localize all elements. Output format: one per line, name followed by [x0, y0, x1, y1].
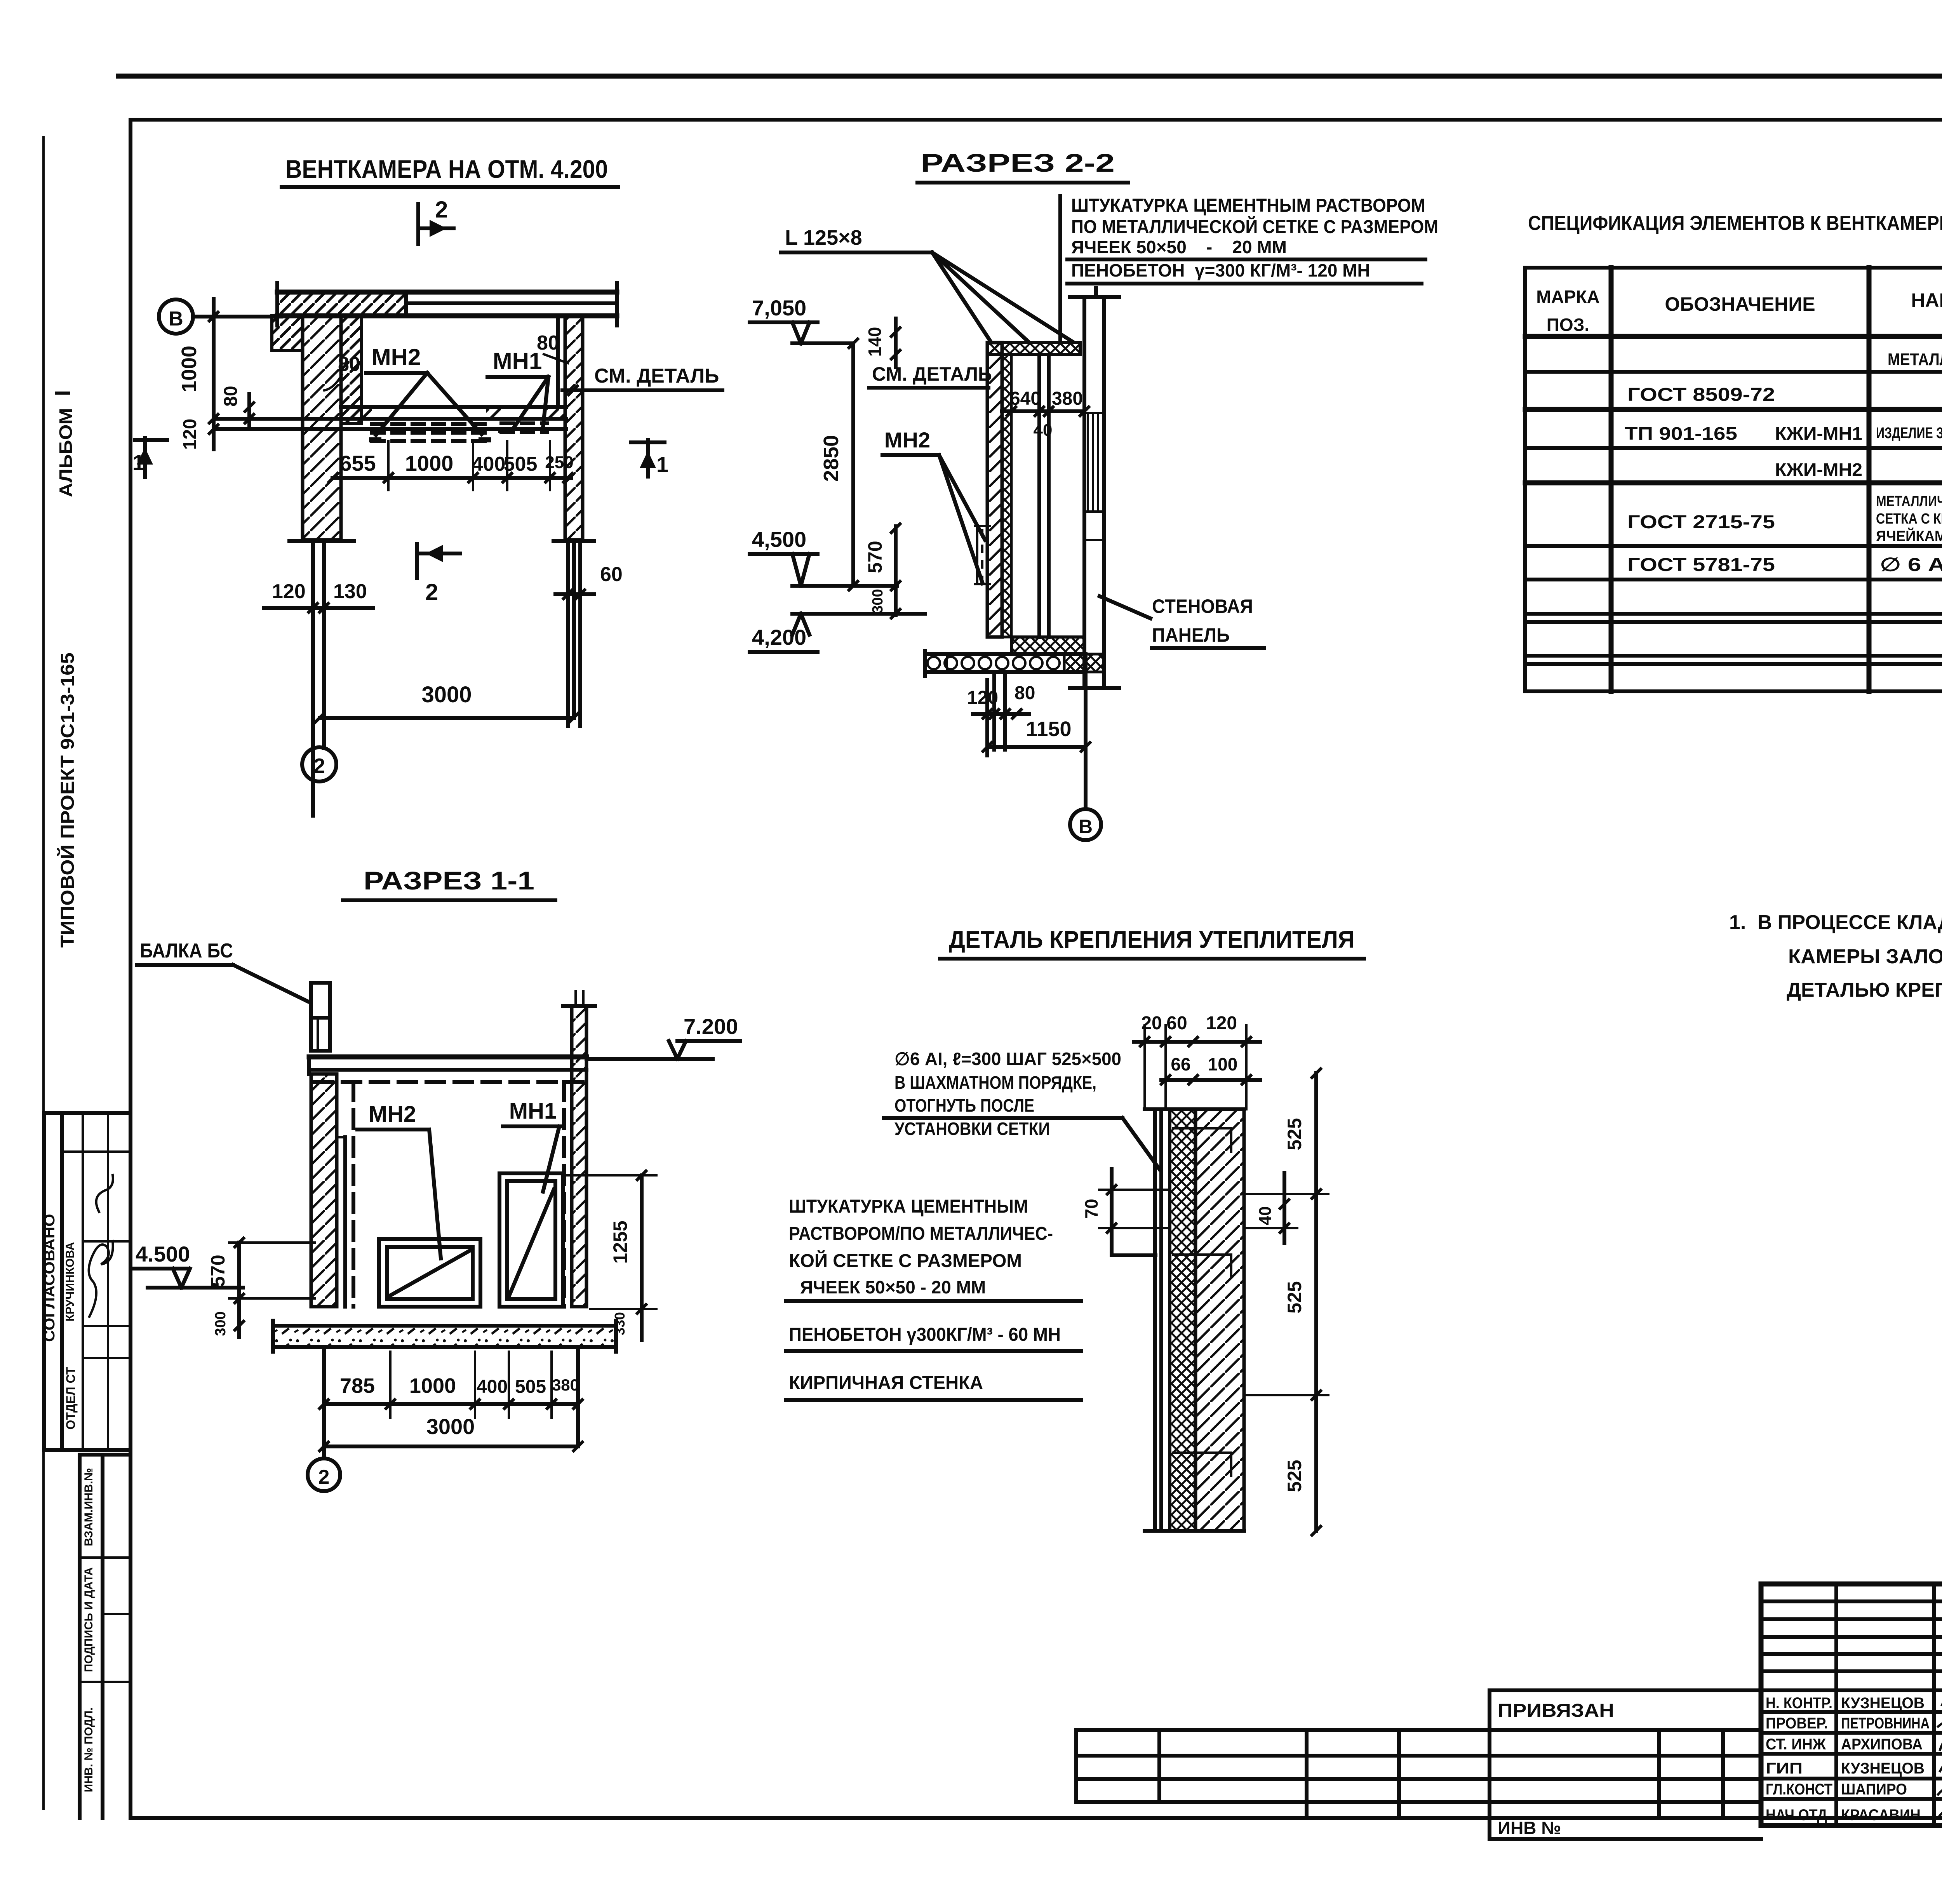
section2 inner partition lines [1039, 355, 1049, 637]
section2 below-floor dims 120 80 [967, 672, 1035, 750]
svg-text:СМ. ДЕТАЛЬ: СМ. ДЕТАЛЬ [594, 365, 719, 387]
section2 MH2 embedded element [975, 526, 990, 584]
plan axis circle B [159, 299, 281, 334]
section2 dim 1150 [982, 680, 1091, 755]
plan left dim 120 [180, 419, 219, 450]
svg-text:МН1: МН1 [509, 1098, 557, 1124]
elevation 4.500 [750, 527, 897, 586]
section1 dim 330 [612, 1309, 642, 1340]
section1 right wall upper stub [563, 991, 595, 1070]
plan top-left corner pier [272, 316, 303, 351]
section2 wall brick strip [987, 343, 1011, 637]
detail note Кирпичная стенка [786, 1373, 1081, 1400]
detail wall layers [1145, 1109, 1244, 1531]
svg-text:1000: 1000 [177, 346, 201, 392]
svg-text:ГОСТ 2715-75: ГОСТ 2715-75 [1627, 512, 1775, 533]
svg-text:ЯЧЕЕК 50×50 - 20 ММ: ЯЧЕЕК 50×50 - 20 ММ [1071, 237, 1287, 257]
svg-text:505: 505 [504, 453, 538, 475]
spec table grid [1525, 268, 1942, 691]
svg-text:ГЛ.КОНСТ: ГЛ.КОНСТ [1766, 1781, 1832, 1798]
section1 label МН1 [503, 1098, 564, 1192]
svg-text:ШАПИРО: ШАПИРО [1841, 1781, 1907, 1798]
svg-text:70: 70 [1081, 1199, 1102, 1218]
left sheet edge line [42, 136, 45, 1810]
svg-text:330: 330 [612, 1312, 628, 1335]
plan left wall [289, 316, 362, 541]
section2 dim 640 380 40 [1002, 388, 1090, 440]
svg-text:120: 120 [1206, 1013, 1237, 1034]
svg-text:7.200: 7.200 [684, 1014, 738, 1039]
plan dim 60 right [555, 563, 623, 600]
plan interior wall band with openings [215, 407, 566, 429]
section2 label Стеновая панель [1100, 595, 1264, 648]
plan opening MH2 dashed grille [369, 424, 491, 442]
svg-text:СЕТКА С КВАДРАТНЫМИ: СЕТКА С КВАДРАТНЫМИ [1876, 511, 1942, 527]
svg-text:МН1: МН1 [493, 348, 542, 374]
section1 floor band [273, 1321, 616, 1352]
spec table header texts [1536, 282, 1942, 335]
svg-text:КУЗНЕЦОВ: КУЗНЕЦОВ [1841, 1695, 1925, 1712]
plan label 80 left [324, 353, 360, 390]
svg-text:100: 100 [1208, 1054, 1238, 1074]
detail top dims 20 60 120 [1134, 1013, 1260, 1109]
svg-text:40: 40 [1256, 1206, 1275, 1225]
svg-text:1: 1 [656, 452, 668, 477]
note Штукатурка upper [1060, 195, 1438, 343]
svg-text:60: 60 [600, 563, 623, 586]
plan section mark 2 top [418, 197, 454, 244]
svg-text:80: 80 [537, 332, 559, 354]
section1 roof slab [309, 1057, 586, 1082]
svg-text:525: 525 [1284, 1118, 1305, 1150]
svg-text:МН2: МН2 [884, 428, 930, 452]
section1 window MH2 [379, 1239, 480, 1307]
detail dim 40 [1247, 1173, 1297, 1243]
svg-text:СМ. ДЕТАЛЬ: СМ. ДЕТАЛЬ [872, 363, 992, 385]
svg-text:ИНВ. № ПОДЛ.: ИНВ. № ПОДЛ. [82, 1707, 95, 1793]
svg-text:АРХИПОВА: АРХИПОВА [1841, 1736, 1923, 1753]
section1 right wall [564, 1070, 586, 1307]
plan left dim 1000 [177, 299, 219, 449]
section2 label СМ ДЕТАЛЬ [869, 363, 992, 388]
svg-text:ПРИВЯЗАН: ПРИВЯЗАН [1498, 1700, 1614, 1721]
label L 125x8 [781, 226, 1073, 342]
top border line [118, 74, 1942, 79]
svg-text:2: 2 [313, 754, 325, 778]
svg-text:ГИП: ГИП [1766, 1760, 1803, 1777]
section2 floor slab with cores [925, 651, 1104, 676]
section1 bottom dims 785 1000 400 505 380 [318, 1352, 583, 1418]
svg-text:130: 130 [333, 580, 367, 603]
svg-text:В ШАХМАТНОМ ПОРЯДКЕ,: В ШАХМАТНОМ ПОРЯДКЕ, [894, 1072, 1096, 1093]
detail note Штукатурка [786, 1196, 1081, 1301]
svg-text:СТ. ИНЖ: СТ. ИНЖ [1766, 1736, 1826, 1753]
svg-text:ШТУКАТУРКА ЦЕМЕНТНЫМ РАСТВОРОМ: ШТУКАТУРКА ЦЕМЕНТНЫМ РАСТВОРОМ [1071, 195, 1425, 216]
section 1-1 title [343, 866, 555, 900]
svg-text:250: 250 [545, 453, 573, 472]
svg-text:РАСТВОРОМ/ПО МЕТАЛЛИЧЕС-: РАСТВОРОМ/ПО МЕТАЛЛИЧЕС- [789, 1224, 1053, 1244]
svg-text:1000: 1000 [405, 451, 454, 475]
svg-text:ПОЗ.: ПОЗ. [1547, 315, 1589, 335]
svg-text:120: 120 [967, 687, 998, 708]
plan dim 120 130 [264, 580, 373, 613]
svg-text:ГОСТ 5781-75: ГОСТ 5781-75 [1627, 555, 1775, 575]
section2 wall panel [1070, 288, 1119, 688]
svg-text:1150: 1150 [1026, 717, 1071, 741]
plan label СМ ДЕТАЛЬ [562, 365, 722, 396]
detail dim 70 [1081, 1169, 1170, 1255]
svg-text:КРУЧИНКОВА: КРУЧИНКОВА [64, 1242, 77, 1321]
svg-text:В: В [169, 308, 183, 330]
svg-text:ДЕТАЛЬЮ КРЕПЛЕНИЯ УТЕПЛИТЕЛЯ.: ДЕТАЛЬЮ КРЕПЛЕНИЯ УТЕПЛИТЕЛЯ. [1787, 979, 1942, 1001]
section 2-2 title [917, 148, 1128, 183]
svg-text:ПЕНОБЕТОН γ300КГ/М³ - 60 МН: ПЕНОБЕТОН γ300КГ/М³ - 60 МН [789, 1324, 1061, 1345]
section1 left wall [311, 1074, 353, 1307]
section2 floor topping band [1011, 637, 1084, 654]
plan dim 3000 [314, 682, 579, 723]
svg-text:1.: 1. [1729, 911, 1746, 934]
svg-text:СТЕНОВАЯ: СТЕНОВАЯ [1152, 595, 1253, 617]
svg-text:УСТАНОВКИ СЕТКИ: УСТАНОВКИ СЕТКИ [894, 1119, 1050, 1139]
section2 wall top cap [987, 343, 1080, 355]
svg-text:ПАНЕЛЬ: ПАНЕЛЬ [1152, 624, 1230, 646]
svg-text:НАИМЕНОВАНИЕ: НАИМЕНОВАНИЕ [1911, 289, 1942, 311]
svg-text:20: 20 [1141, 1013, 1162, 1034]
svg-text:ЯЧЕЙКАМИ 50×50: ЯЧЕЙКАМИ 50×50 [1876, 527, 1942, 545]
svg-text:380: 380 [1052, 388, 1083, 409]
svg-text:СОГЛАСОВАНО: СОГЛАСОВАНО [42, 1214, 58, 1342]
detail note Пенобетон [786, 1324, 1081, 1351]
svg-text:1000: 1000 [409, 1374, 456, 1398]
svg-text:120: 120 [180, 419, 200, 450]
svg-text:КЖИ-МН2: КЖИ-МН2 [1775, 459, 1862, 480]
svg-text:640: 640 [1010, 388, 1041, 409]
plan bottom dim row 655 1000 400 505 250 [328, 441, 574, 490]
svg-text:525: 525 [1284, 1460, 1305, 1492]
svg-text:МН2: МН2 [372, 344, 421, 370]
beam BS [311, 983, 330, 1051]
plan axis circle 2 [302, 747, 336, 781]
svg-text:ОТДЕЛ СТ: ОТДЕЛ СТ [64, 1367, 78, 1429]
svg-text:МАРКА: МАРКА [1536, 287, 1600, 307]
detail note anchors text [884, 1049, 1159, 1169]
svg-text:80: 80 [338, 353, 360, 376]
svg-text:570: 570 [864, 541, 886, 573]
left stamp block СОГЛАСОВАНО [42, 1113, 131, 1450]
svg-text:В: В [1079, 816, 1093, 837]
svg-text:140: 140 [865, 327, 885, 357]
elevation 7.200 [586, 1014, 740, 1059]
left stamp column Типовой проект 901-3-165 [57, 653, 78, 948]
svg-text:785: 785 [340, 1374, 375, 1398]
plan label 80 right [537, 332, 568, 363]
svg-text:1: 1 [132, 450, 144, 475]
svg-text:МН2: МН2 [369, 1102, 416, 1127]
plan section mark 2 bottom [417, 544, 460, 605]
svg-text:300: 300 [212, 1311, 229, 1336]
svg-text:ПРОВЕР.: ПРОВЕР. [1766, 1715, 1828, 1732]
svg-text:L 125×8: L 125×8 [785, 226, 862, 249]
section1 dim 570 [207, 1237, 315, 1304]
svg-text:3000: 3000 [421, 682, 472, 707]
svg-text:300: 300 [870, 589, 886, 613]
svg-text:ИЗДЕЛИЕ ЗАКЛАДНОЕ МН1: ИЗДЕЛИЕ ЗАКЛАДНОЕ МН1 [1876, 425, 1942, 442]
svg-text:ОТОГНУТЬ ПОСЛЕ: ОТОГНУТЬ ПОСЛЕ [894, 1095, 1034, 1116]
plan section mark 1 left [132, 438, 167, 477]
dim 2850 vertical [820, 338, 859, 591]
svg-text:ИНВ №: ИНВ № [1498, 1818, 1561, 1838]
svg-text:КУЗНЕЦОВ: КУЗНЕЦОВ [1841, 1760, 1925, 1777]
plan label MH1 [487, 348, 548, 430]
svg-text:120: 120 [272, 580, 306, 603]
dim 140 [865, 318, 901, 367]
svg-text:ПОДПИСЬ И ДАТА: ПОДПИСЬ И ДАТА [82, 1567, 95, 1672]
svg-text:2: 2 [435, 197, 448, 223]
svg-text:570: 570 [207, 1255, 229, 1287]
spec table title [1528, 212, 1942, 235]
section1 dim 300 [212, 1298, 245, 1337]
plan section mark 1 right [631, 440, 668, 477]
svg-text:∅6 АI, ℓ=300 ШАГ 525×500: ∅6 АI, ℓ=300 ШАГ 525×500 [894, 1049, 1121, 1069]
svg-text:В ПРОЦЕССЕ КЛАДКИ ПЕРЕГОРОДОК: В ПРОЦЕССЕ КЛАДКИ ПЕРЕГОРОДОК ВОЗДУХОЗАБ… [1758, 911, 1942, 934]
svg-text:КАМЕРЫ ЗАЛОЖИТЬ АНКЕРА, В СООТ: КАМЕРЫ ЗАЛОЖИТЬ АНКЕРА, В СООТВЕТСТВИИ С [1788, 945, 1942, 968]
detail anchor hooks [1173, 1128, 1231, 1476]
svg-text:ГОСТ 8509-72: ГОСТ 8509-72 [1627, 385, 1775, 405]
svg-text:Н. КОНТР.: Н. КОНТР. [1766, 1695, 1832, 1712]
svg-text:2: 2 [318, 1466, 330, 1488]
svg-text:ТП 901-165: ТП 901-165 [1625, 423, 1737, 444]
svg-text:МЕТАЛЛИЧЕСКАЯ ТКАНАЯ: МЕТАЛЛИЧЕСКАЯ ТКАНАЯ [1876, 493, 1942, 510]
svg-text:БАЛКА БС: БАЛКА БС [140, 940, 233, 962]
svg-text:ПО МЕТАЛЛИЧЕСКОЙ СЕТКЕ С РАЗМЕ: ПО МЕТАЛЛИЧЕСКОЙ СЕТКЕ С РАЗМЕРОМ [1071, 216, 1438, 237]
svg-text:АЛЬБОМ: АЛЬБОМ [56, 408, 76, 497]
svg-text:2: 2 [425, 579, 438, 605]
svg-text:ДЕТАЛЬ КРЕПЛЕНИЯ УТЕПЛИТЕЛЯ: ДЕТАЛЬ КРЕПЛЕНИЯ УТЕПЛИТЕЛЯ [949, 926, 1355, 953]
svg-text:ПЕТРОВНИНА: ПЕТРОВНИНА [1841, 1715, 1930, 1732]
svg-text:СПЕЦИФИКАЦИЯ ЭЛЕМЕНТОВ К ВЕНТК: СПЕЦИФИКАЦИЯ ЭЛЕМЕНТОВ К ВЕНТКАМЕРЕ, РАС… [1528, 212, 1942, 235]
svg-text:505: 505 [515, 1377, 546, 1397]
elevation 7.050 [750, 296, 853, 343]
svg-text:ВЕНТКАМЕРА НА ОТМ. 4.200: ВЕНТКАМЕРА НА ОТМ. 4.200 [285, 155, 608, 183]
detail dims 66 100 [1160, 1054, 1260, 1085]
svg-text:КИРПИЧНАЯ СТЕНКА: КИРПИЧНАЯ СТЕНКА [789, 1373, 983, 1393]
dim 300 section2 [870, 586, 901, 619]
detail right dims 525 x3 [1247, 1068, 1328, 1536]
section2 label МН2 with leader [882, 428, 985, 583]
svg-text:НАЧ.ОТД.: НАЧ.ОТД. [1766, 1807, 1831, 1824]
svg-text:КОЙ СЕТКЕ С РАЗМЕРОМ: КОЙ СЕТКЕ С РАЗМЕРОМ [789, 1250, 1022, 1271]
section1 axis circle 2 [308, 1458, 340, 1491]
svg-text:66: 66 [1171, 1054, 1190, 1074]
spec table rows [1625, 350, 1942, 575]
svg-text:2850: 2850 [820, 435, 843, 482]
signature table names [1766, 1695, 1930, 1824]
section1 label МН2 [357, 1102, 441, 1258]
svg-text:40: 40 [1034, 421, 1053, 440]
detail title [940, 926, 1364, 959]
svg-text:380: 380 [552, 1376, 579, 1394]
section1 dim 3000 [318, 1347, 583, 1458]
svg-text:I: I [50, 390, 75, 396]
svg-text:КЖИ-МН1: КЖИ-МН1 [1775, 423, 1862, 444]
svg-text:ВЗАМ.ИНВ.№: ВЗАМ.ИНВ.№ [82, 1468, 95, 1546]
svg-text:ЯЧЕЕК 50×50 - 20 ММ: ЯЧЕЕК 50×50 - 20 ММ [800, 1277, 986, 1297]
svg-text:ШТУКАТУРКА ЦЕМЕНТНЫМ: ШТУКАТУРКА ЦЕМЕНТНЫМ [789, 1196, 1028, 1217]
label Балка БС [137, 940, 308, 1001]
svg-text:РАЗРЕЗ 1-1: РАЗРЕЗ 1-1 [364, 866, 534, 895]
svg-text:525: 525 [1284, 1281, 1305, 1313]
plan wall axis lines below [313, 541, 580, 816]
svg-text:60: 60 [1166, 1013, 1187, 1034]
plan title [282, 155, 618, 187]
svg-text:400: 400 [477, 1377, 508, 1397]
svg-text:МЕТАЛЛИЧЕСКИЕ ЭЛЕМЕНТЫ: МЕТАЛЛИЧЕСКИЕ ЭЛЕМЕНТЫ [1888, 350, 1942, 369]
section1 window MH1 [499, 1173, 563, 1307]
svg-text:1255: 1255 [609, 1220, 631, 1264]
svg-text:∅ 6 АI ; ℓ= 310: ∅ 6 АI ; ℓ= 310 [1880, 555, 1942, 575]
svg-text:4,500: 4,500 [752, 527, 806, 552]
svg-text:400: 400 [472, 453, 506, 475]
section2 axis circle B [1070, 672, 1101, 840]
section1 dim 1255 [567, 1170, 656, 1314]
elevation 4.500 left [132, 1242, 243, 1288]
svg-text:4.500: 4.500 [136, 1242, 190, 1266]
svg-text:80: 80 [221, 386, 241, 406]
plan opening MH1 dashed grille [498, 423, 547, 433]
svg-text:ПЕНОБЕТОН γ=300 КГ/М³- 120 МН: ПЕНОБЕТОН γ=300 КГ/М³- 120 МН [1071, 260, 1370, 280]
svg-text:655: 655 [339, 451, 376, 475]
plan top slab band [277, 283, 617, 325]
plan left dim 80 [221, 386, 255, 429]
plan label MH2 [366, 344, 482, 435]
svg-text:4,200: 4,200 [752, 625, 806, 649]
signature table grid [1761, 1584, 1942, 1826]
привязан stamp box [1076, 1690, 1761, 1839]
dim 570 section2 [864, 523, 901, 591]
signatures squiggles [1938, 1694, 1942, 1838]
svg-text:ТИПОВОЙ ПРОЕКТ 9С1-3-165: ТИПОВОЙ ПРОЕКТ 9С1-3-165 [57, 653, 78, 948]
elevation 4.200 [750, 614, 925, 652]
plan right wall [553, 316, 594, 541]
left stamp block Взам инв / Подпись и дата / Инв № подл [80, 1455, 131, 1818]
svg-text:РАЗРЕЗ 2-2: РАЗРЕЗ 2-2 [921, 148, 1115, 177]
svg-text:7,050: 7,050 [752, 296, 806, 320]
left stamp column АЛЬБОМ [50, 390, 76, 497]
svg-text:80: 80 [1015, 683, 1035, 703]
svg-text:ОБОЗНАЧЕНИЕ: ОБОЗНАЧЕНИЕ [1665, 293, 1815, 315]
svg-text:КРАСАВИН: КРАСАВИН [1841, 1807, 1921, 1824]
svg-text:3000: 3000 [426, 1414, 475, 1439]
